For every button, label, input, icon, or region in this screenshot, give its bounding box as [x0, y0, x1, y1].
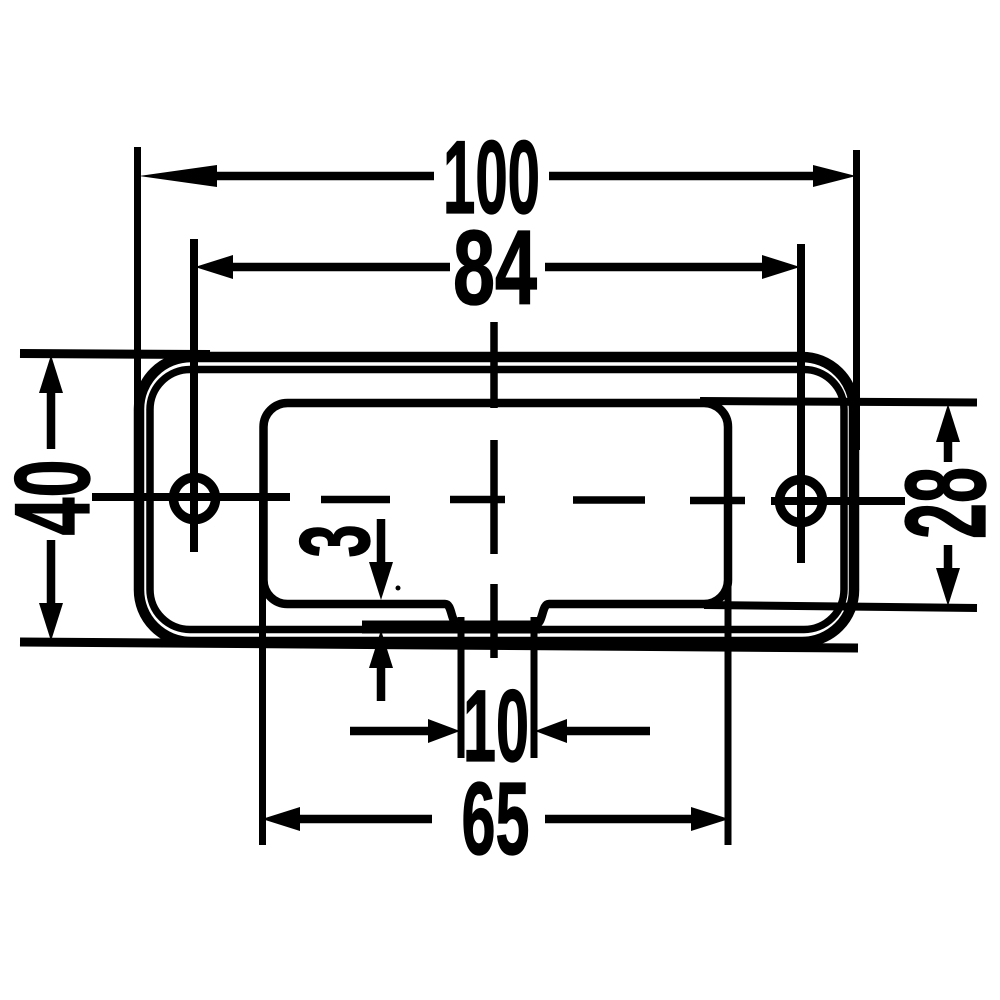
- svg-text:84: 84: [453, 209, 537, 327]
- svg-text:3: 3: [279, 525, 390, 558]
- svg-text:40: 40: [0, 460, 112, 536]
- svg-text:28: 28: [883, 467, 1000, 539]
- svg-text:65: 65: [462, 761, 530, 876]
